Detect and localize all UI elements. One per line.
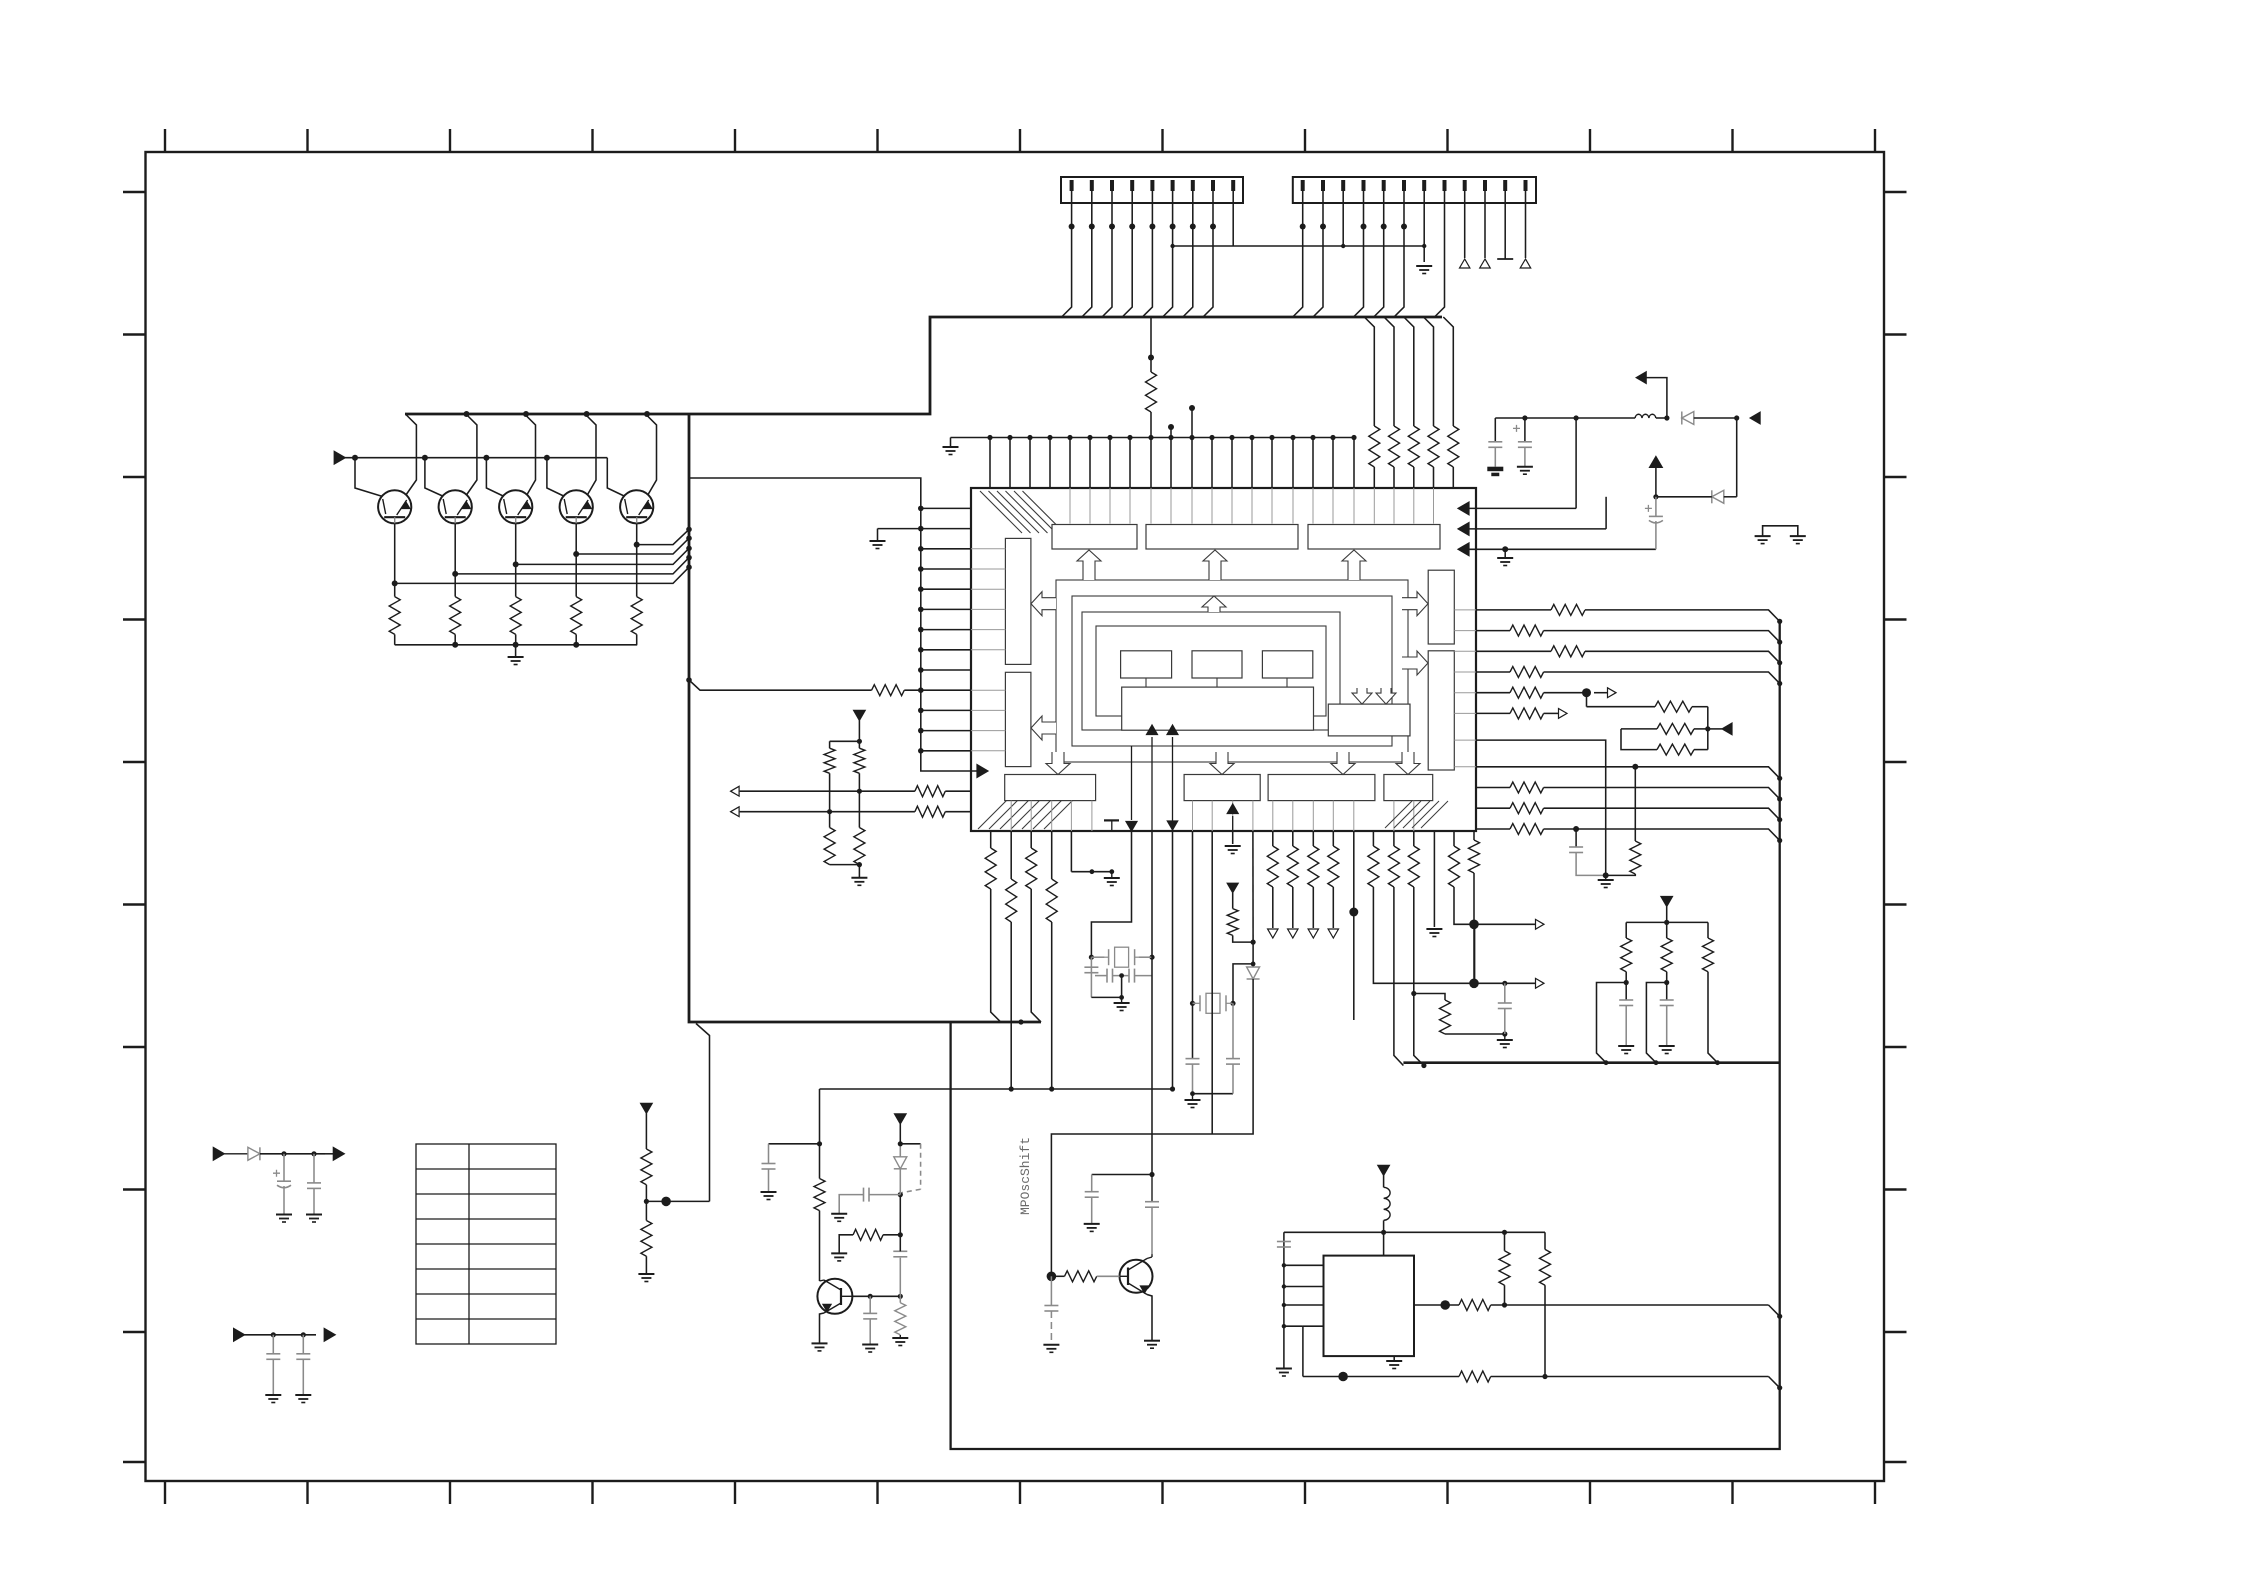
IC block right R1: [1428, 570, 1454, 644]
supply coil into U2: [1378, 1165, 1390, 1175]
transistor Q4: [560, 490, 593, 523]
column c1413 to bus with RC branch: [1413, 831, 1415, 846]
right row1 arrow into IC: [1458, 502, 1469, 515]
off-page up arrow: [1655, 468, 1657, 497]
open-ended columns c1272..c1333: [1272, 831, 1274, 846]
IC block mid M2: [1192, 651, 1242, 678]
resistor pull network: [1369, 426, 1380, 467]
zener diode with supply Q6: [899, 1169, 901, 1195]
U2 output row 2: [1303, 1376, 1459, 1378]
right row3 arrow into IC: [1458, 543, 1469, 556]
U2 bottom ground: [1386, 1361, 1402, 1369]
ground stub row3: [1497, 558, 1513, 566]
wire Q3 tap to boundary bus: [516, 548, 689, 564]
crystal2 ground: [1185, 1094, 1201, 1108]
IC block top A: [1052, 525, 1137, 550]
wire Q2 tap to boundary bus: [455, 558, 689, 574]
IC block bottom BN: [1268, 775, 1375, 801]
wire net: [1621, 729, 1657, 750]
emitter columns and resistors: [394, 523, 396, 596]
internal vertical signal with up arrow 1: [1151, 737, 1153, 831]
dashed link: [900, 1143, 920, 1145]
transistor Q5: [620, 490, 653, 523]
IC block big center: [1122, 687, 1314, 730]
IC block left L2: [1005, 672, 1031, 766]
ground: [1659, 1046, 1675, 1054]
off-page arrow: [1722, 723, 1732, 735]
resistor Rd3: [824, 828, 835, 865]
supply chain with resistor c1232: [1227, 883, 1238, 893]
cap: [313, 1154, 315, 1183]
resistor R feed from bus1 x=1151: [1150, 317, 1152, 372]
connector CN2: [1293, 177, 1536, 203]
IC top pin wires: [987, 435, 992, 440]
NPN circuit Q7: [1149, 1172, 1154, 1177]
Q6 base net: [852, 1295, 900, 1297]
IC U2: [1324, 1256, 1415, 1357]
U2 left ground: [1276, 1369, 1292, 1377]
RC ground: [1497, 1034, 1513, 1048]
out row 1 with open left arrow: [731, 786, 740, 796]
resistor Rd2: [854, 748, 865, 773]
jumper net y=246: [1173, 245, 1425, 247]
inductor L1: [1635, 414, 1656, 418]
mid blocks link lines: [1145, 678, 1147, 687]
column c1393 to bus: [1393, 831, 1395, 846]
hollow left arrow to L1: [1031, 592, 1056, 616]
IC internal diagonal fan bottom-left: [978, 797, 1010, 829]
divider chain x=646: [641, 1103, 653, 1113]
IC block top B: [1146, 525, 1298, 550]
bottom column c990: [990, 831, 992, 848]
wire Q1 tap to boundary bus: [395, 567, 689, 583]
resistor Rd1: [824, 748, 835, 773]
ground at left end of IC top bus: [943, 447, 959, 455]
hollow down arrow to BO: [1396, 752, 1420, 775]
wire to bus: [1708, 972, 1718, 1063]
emitter resistor R4: [571, 597, 582, 635]
hollow down arrow to BL: [1046, 752, 1070, 775]
PNP oscillator circuit: [819, 1089, 821, 1144]
divider network with supply left of IC: [854, 710, 866, 720]
diode D4: [248, 1147, 260, 1160]
resistor Rb: [1661, 938, 1672, 972]
bus1 right-side drop lines: [1364, 317, 1374, 426]
hollow up arrow inner ring: [1202, 596, 1226, 612]
resistor Rc: [1703, 938, 1714, 972]
row J: [1476, 767, 1780, 779]
3-resistor feedback network: [1586, 693, 1588, 707]
double ground jumper: [1763, 526, 1798, 536]
electrolytic cap C+: [1645, 505, 1663, 523]
junction node: [1189, 405, 1195, 411]
bottom column c1011: [1010, 831, 1012, 879]
column c1353: [1353, 831, 1355, 1020]
off-page arrow upper: [1646, 378, 1667, 418]
page border frame: [146, 152, 1885, 1481]
bottom column c1051: [1051, 831, 1053, 879]
junction node: [1168, 424, 1174, 430]
transistor Q3: [499, 490, 532, 523]
series caps row: [1095, 975, 1107, 977]
hollow left arrow to L2: [1031, 716, 1056, 740]
crystal X2 network: [1192, 831, 1194, 1059]
resistor pull network: [1408, 426, 1419, 467]
diode D2 branch: [1736, 418, 1738, 497]
ground rail right: [1598, 875, 1614, 888]
row M with cap branch: [1476, 828, 1510, 830]
hollow up arrow to block C: [1342, 550, 1366, 580]
electrolytic cap: [283, 1154, 285, 1181]
column c1212 to MPOsc top: [1211, 831, 1213, 1134]
IC U1 body: [971, 488, 1476, 831]
U2 output row 1: [1414, 1304, 1459, 1306]
IC internal bus ring inner: [1072, 596, 1392, 746]
emitter resistor R3: [510, 597, 521, 635]
passthrough caps circuit lower-left: [234, 1328, 245, 1341]
IC block right R2: [1428, 651, 1454, 770]
row I to ground rail: [1476, 740, 1606, 875]
open terminal triangle: [1520, 259, 1531, 268]
U2 left pin bus: [1283, 1232, 1285, 1368]
IC block bottom BO: [1384, 775, 1433, 801]
wire to bus: [1646, 983, 1666, 1063]
base input arrow: [334, 451, 345, 464]
ground pin c1232: [1232, 831, 1234, 844]
hollow down arrow to BM: [1210, 752, 1234, 775]
off-page arrow right: [1750, 412, 1760, 424]
thick lower bus y=1063: [1403, 1061, 1779, 1064]
Q7 emitter ground: [1144, 1341, 1160, 1349]
out row 2 with open left arrow: [731, 807, 740, 817]
column c1434 to ground: [1433, 831, 1435, 927]
resistor pull network: [1389, 426, 1400, 467]
diode D2: [1712, 490, 1724, 503]
hollow down arrow to BN: [1331, 752, 1355, 775]
CN1 pin wires to bus: [1062, 191, 1072, 317]
wire Q5 tap to boundary bus: [637, 529, 689, 544]
ground under CN2 pin7: [1416, 266, 1432, 274]
row G with junction arrow: [1476, 692, 1510, 694]
IC block right-lower: [1328, 704, 1410, 736]
hollow up arrow to block A: [1077, 550, 1101, 580]
MPOscShift region boundary: [951, 620, 1780, 1449]
parts table: [416, 1144, 556, 1344]
IC internal bus ring2 inner: [1096, 626, 1326, 716]
crystal ground: [1114, 998, 1130, 1011]
internal down arrow at bottom edge 1: [1131, 746, 1133, 820]
open terminal triangle: [1480, 259, 1491, 268]
IC top supply bus: [951, 437, 1355, 439]
IC left pin rows: [918, 506, 924, 512]
ground pin cluster c1071/c1111: [1070, 831, 1072, 872]
U2 top rail: [1284, 1231, 1545, 1233]
right row2 arrow into IC: [1458, 523, 1469, 536]
CN2 pin wires: [1293, 191, 1303, 317]
IC internal bus ring outer: [1056, 580, 1408, 762]
column c1454 to out arrow row: [1453, 831, 1455, 846]
internal vertical signal with up arrow 2: [1172, 737, 1174, 831]
emitter resistor R2: [450, 597, 461, 635]
IC block left L1: [1005, 538, 1031, 664]
hollow right arrow to R1: [1402, 592, 1428, 616]
input diode circuit lower-left: [213, 1147, 224, 1160]
internal up arrow above ground pin: [1227, 804, 1238, 814]
IC block mid M3: [1262, 651, 1312, 678]
crystal feed bend c1131: [1091, 831, 1131, 957]
emitter resistor R5: [631, 597, 642, 635]
long column c1152: [1151, 831, 1153, 957]
Q7 base resistor: [1065, 1271, 1097, 1282]
IC block mid M1: [1121, 651, 1172, 678]
divider ground: [851, 878, 867, 886]
hollow down arrows to right-lower block: [1352, 688, 1372, 704]
internal bar terminal inside IC: [1104, 819, 1119, 821]
IC internal diagonal fan bottom-right: [1385, 801, 1412, 828]
hollow right arrow to R2: [1402, 651, 1428, 675]
Q6 ground: [812, 1343, 828, 1351]
svg-text:MPOscShift: MPOscShift: [1018, 1137, 1033, 1215]
IC block bottom BM: [1184, 775, 1260, 801]
wire net y=1089: [820, 1088, 1173, 1090]
emitter resistor R1: [389, 597, 400, 635]
row H short arrow: [1476, 712, 1510, 714]
NC bar terminal: [1497, 258, 1513, 260]
pullup resistors U2: [1504, 1232, 1506, 1251]
resistor Rd4: [854, 828, 865, 865]
transistor bank collector drops from bus: [405, 414, 416, 496]
ground: [1618, 1046, 1634, 1054]
transistor Q1: [378, 490, 411, 523]
resistor pull network: [1448, 426, 1459, 467]
electrolytic cap top right: [1524, 418, 1526, 442]
wire to bus: [1597, 983, 1627, 1063]
cap C near top right 1: [1494, 418, 1496, 442]
resistor: [1630, 841, 1641, 874]
supply divider network right-lower: [1661, 897, 1673, 907]
transistor Q6: [817, 1279, 852, 1314]
IC left feed bus: [689, 478, 977, 771]
hollow up arrow to block B: [1203, 550, 1227, 580]
IC block bottom BL: [1005, 775, 1096, 801]
crystal X1 network: [1089, 955, 1094, 960]
ground stub on row2: [878, 528, 921, 530]
column c1373 to out arrow row: [1372, 831, 1374, 846]
resistor Ra: [1621, 938, 1632, 972]
corner pin resistor chain right of IC: [1473, 831, 1475, 840]
filled arrow into IC: [977, 765, 988, 778]
IC internal bus ring2 outer: [1082, 612, 1340, 730]
right resistor rows C..M: [1476, 609, 1551, 611]
wire Q4 tap to boundary bus: [576, 538, 689, 554]
long drop wire c1474: [1474, 924, 1476, 983]
resistor pull network: [1428, 426, 1439, 467]
row from boundary with resistor: [686, 677, 692, 683]
IC internal pin stubs (light): [1069, 488, 1071, 524]
IC internal diagonal fan top-left: [980, 491, 1022, 533]
connector CN1: [1061, 177, 1243, 203]
border tick marks: [164, 129, 166, 152]
lower divider resistors to ground: [829, 812, 831, 828]
ground of emitter bus: [508, 657, 524, 665]
column c1172 with down arrow: [1172, 831, 1174, 1089]
top-right supply net: [1495, 417, 1635, 419]
open terminal triangle: [1460, 259, 1470, 268]
transistor Q2: [439, 490, 472, 523]
diode D1: [1682, 412, 1694, 425]
emitter common bus: [395, 644, 638, 646]
solid ground: [1487, 467, 1503, 477]
module boundary bus (thick): [405, 317, 1442, 414]
column c1253 diode chain: [1252, 831, 1254, 942]
IC block top C: [1308, 525, 1440, 550]
transistor Q7: [1120, 1260, 1153, 1293]
Q6 upper bias network: [899, 1258, 901, 1297]
diode D3: [1247, 967, 1260, 979]
bottom column c1031: [1030, 831, 1032, 848]
